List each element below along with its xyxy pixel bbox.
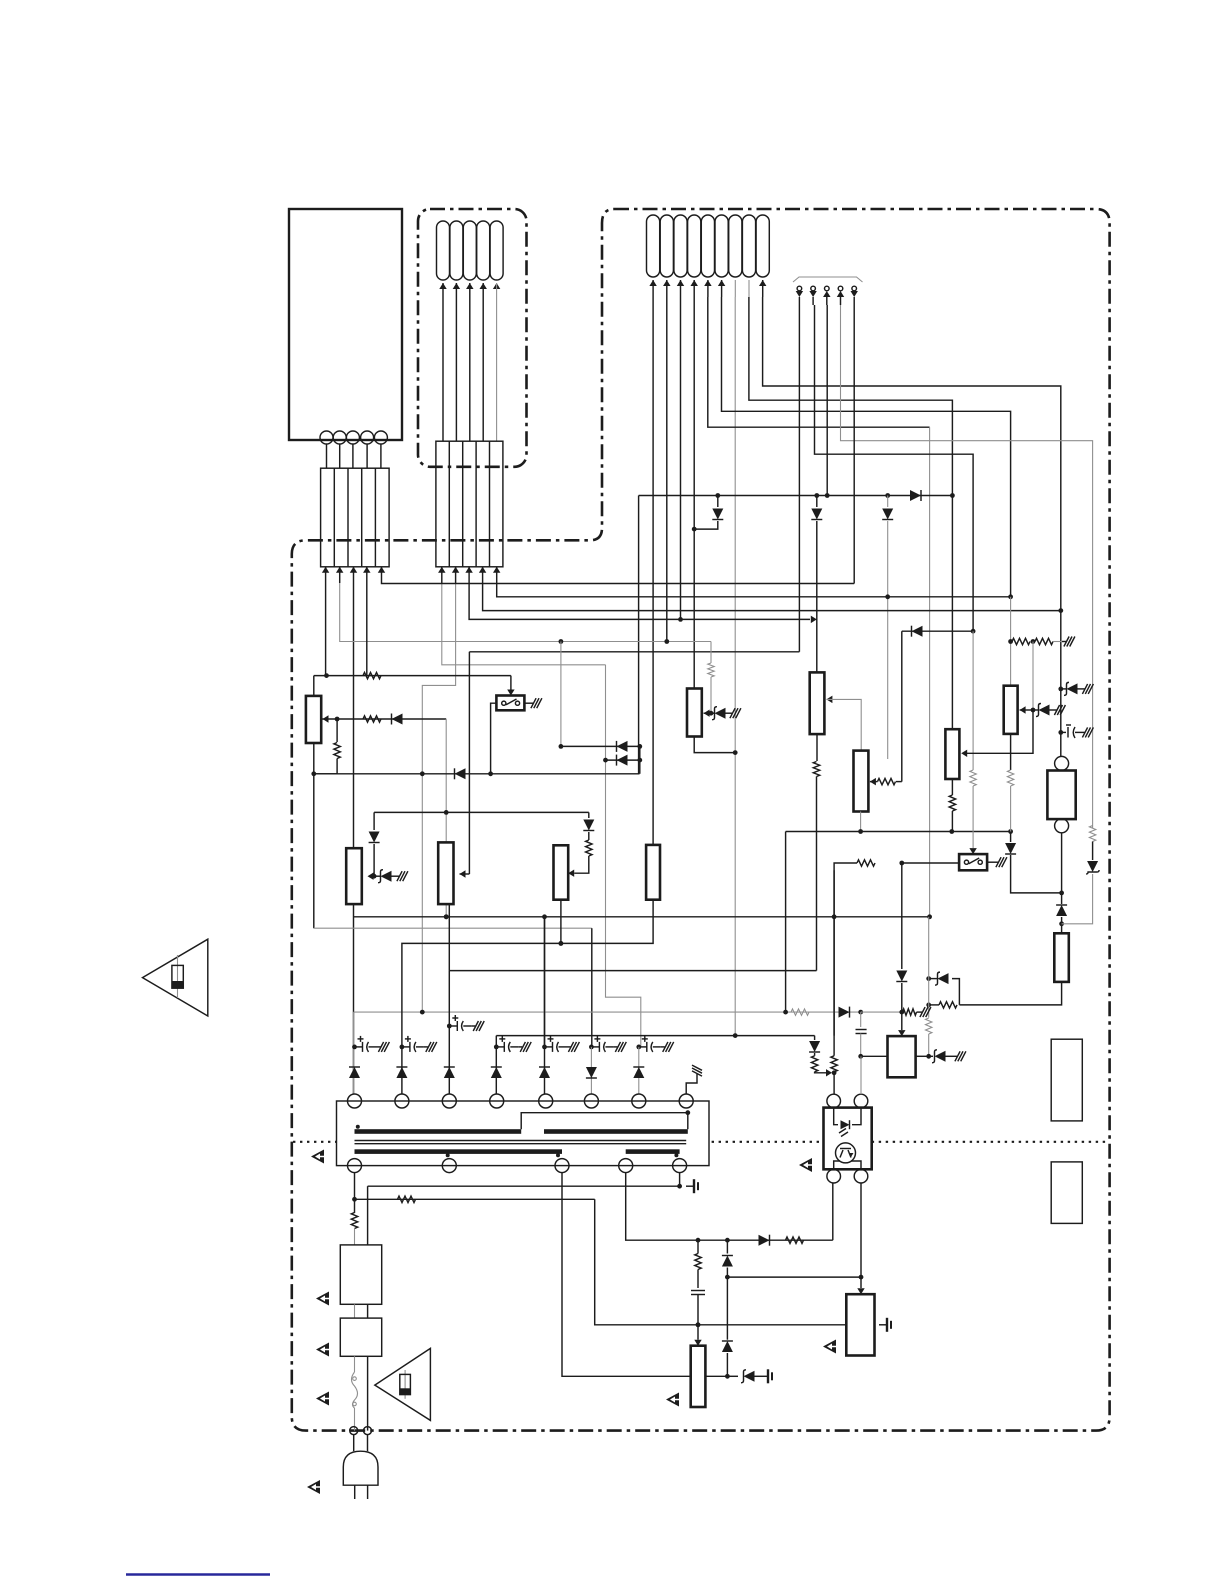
junction 753/jog [733, 750, 738, 755]
junction R11 top [335, 717, 340, 722]
junction rail619 pill3 [678, 617, 683, 622]
core line 2 [355, 1143, 687, 1145]
wire below boxes [354, 1356, 356, 1372]
junction x901/switch rail [899, 861, 904, 866]
header pin arrows [796, 291, 803, 297]
B4 bottom chain [816, 734, 818, 761]
junction loop/grey col [926, 1003, 931, 1008]
arrow into B4 from grey [826, 696, 832, 703]
junction x1061/923 [1059, 921, 1064, 926]
switch S2 rail left [902, 862, 959, 864]
junction c4 [495, 1046, 497, 1048]
resistor R18 on x1092 [1089, 826, 1095, 842]
wire x901 upper [901, 631, 903, 781]
dash-dot isolation border (main chassis outline) [292, 209, 1110, 1431]
wire pill2 down [666, 297, 668, 642]
zener ZD2 to ground [1061, 688, 1066, 690]
plug circle L [350, 1427, 358, 1435]
wires pills to CN2 block [439, 283, 446, 289]
grey rail 1012 [354, 1011, 861, 1013]
zener ZD6 [727, 1375, 738, 1377]
wire sec pin4 loop [626, 1173, 833, 1241]
resistor R27 [811, 1056, 817, 1072]
diode D22 [396, 1067, 407, 1078]
R-block R1 [554, 845, 569, 899]
cap C3 cluster [447, 1024, 452, 1029]
grey drop x562 [560, 642, 562, 747]
zener ZD8 B3 [711, 712, 714, 714]
pill lead-in arrows [649, 280, 656, 286]
thermistor top circle [1055, 756, 1069, 770]
chain x698 down [697, 1240, 699, 1253]
wire pill1 down to R-block B2 [652, 297, 654, 845]
wire x901 lower [901, 863, 903, 969]
R-block B6 [1004, 686, 1018, 734]
wire M1 bottom to rail970 [448, 904, 450, 971]
resistor R28 parallel [833, 870, 835, 1056]
opto pin2 circle [854, 1094, 868, 1108]
wire rail1199 drop [595, 1199, 847, 1325]
R-block B2 [646, 845, 660, 900]
wire x1060 chain [1060, 611, 1062, 757]
junction rail831 end [1008, 829, 1013, 834]
diode D7 left chain [373, 812, 375, 830]
junction x698 on 1324 [696, 1322, 701, 1327]
junction left chain [372, 874, 377, 879]
wire CN2 pin1 (grey) down then right [442, 583, 606, 665]
resistor R32 on loop [786, 1237, 804, 1243]
junction 1324/x698 [696, 1322, 701, 1327]
junction x1060/732 [1058, 730, 1063, 735]
wire CN1 pin4 down [366, 583, 368, 676]
junction rail596 x887 [885, 594, 890, 599]
junction x327 on 675 [324, 673, 329, 678]
junction 916/grey-drop [444, 914, 449, 919]
hazard marker 1 [311, 1150, 324, 1164]
label box 2 [1051, 1162, 1082, 1224]
junction grey col/1056 rail [926, 1054, 931, 1059]
wire CN2 pin2 (grey) down [422, 583, 455, 1012]
junction loop/x698 [696, 1238, 701, 1243]
diode D14 on drop [1010, 832, 1012, 843]
grey rail 1012 right [861, 1011, 902, 1013]
diode D30 on loop [759, 1235, 770, 1246]
wire CN1 pin2 (grey) rail [340, 583, 711, 642]
dash-dot connector sub-box around CN pills [418, 209, 527, 467]
wire S2 rail to x834 [834, 863, 857, 1036]
regulator REG1 [691, 1346, 706, 1407]
connector pill contacts CN3 (9) [647, 215, 660, 277]
junction 812/446 [445, 811, 447, 813]
diode D9 down [896, 971, 907, 982]
wire between boxes [354, 1304, 356, 1318]
chassis ground zd6 [760, 1375, 768, 1377]
drop to winding6 [591, 928, 593, 1047]
resistor R30 on rail1199 [398, 1196, 416, 1202]
diode D12 on rail1012 [839, 1007, 850, 1018]
resistor R22 [1035, 638, 1053, 644]
R-block L2 [346, 848, 362, 904]
junction 1012/x785 [783, 1010, 788, 1015]
diode D6 on 773 rail [455, 768, 466, 779]
wire header pin5 down [853, 305, 855, 584]
junction bus/header pin3 [825, 493, 830, 498]
opto transistor [836, 1143, 856, 1163]
wire drop to winding5 [544, 917, 546, 1095]
junction 773/switch drop [488, 771, 493, 776]
rail 1277 [727, 1276, 861, 1278]
hazard marker 5 [316, 1392, 329, 1406]
rail 1035 corner chain [814, 1036, 816, 1040]
label box 1 [1051, 1039, 1082, 1121]
cap C5 cluster [542, 1045, 547, 1050]
junction 916/x832 [832, 914, 837, 919]
posistor body [1047, 771, 1075, 820]
plug prong 2 [367, 1485, 369, 1499]
wire CN2 pin5 rail [497, 583, 1011, 597]
isolation dotted line right segment [872, 1141, 1109, 1143]
wire sec pin5 ground [679, 1173, 681, 1187]
wire header pin1 down [798, 305, 800, 652]
R-block B5 [854, 751, 869, 812]
wire CN1 pin5 rail [382, 582, 855, 585]
resistor R20 on grey col [928, 917, 930, 1018]
junction 831/952 [949, 829, 954, 834]
arrow into M1 [460, 870, 466, 877]
junction rail610 right [1058, 608, 1063, 613]
CN2 bottom pin arrows [438, 567, 445, 573]
resistor R19 on loop [939, 1002, 957, 1008]
opto LED [841, 1120, 850, 1129]
arrow into B3 [704, 709, 710, 716]
arrow into L2 [368, 872, 374, 879]
zener ZD7 to ground [929, 1055, 933, 1057]
wire drop to winding3 [448, 971, 450, 1095]
wire 719 rail [323, 718, 447, 720]
junction 1035/pill7 [733, 1033, 738, 1038]
junction x1060/688 [1058, 687, 1063, 692]
wire header pin4 (grey) [841, 305, 1093, 828]
opto pin1 circle [827, 1094, 841, 1108]
wire REG1 right [705, 1375, 727, 1377]
hazard marker 7 [666, 1393, 679, 1407]
winding bar top-left [355, 1129, 522, 1134]
isolation dotted line (primary/secondary) left segment [293, 1141, 337, 1143]
junction B3 node [709, 711, 714, 716]
cap C10 to ground [1061, 731, 1066, 733]
transformer T1 outline [337, 1101, 710, 1166]
rail 1199 [355, 1198, 595, 1200]
wire sec pin1 down [354, 1173, 356, 1213]
wire CN1 pin3 long rail [353, 583, 355, 1094]
wire into opto pin1 [833, 1073, 835, 1094]
rail 916 (secondary gnd ref) [354, 916, 930, 918]
winding bar bottom-right [626, 1149, 680, 1154]
cap C6 cluster [589, 1045, 594, 1050]
wire node710 to B7 [966, 710, 1033, 753]
resistor R12 on 719 rail [363, 716, 381, 722]
wire posistor down [1061, 833, 1063, 904]
wire pill4 down to R-block B3 [693, 297, 695, 689]
wire bus to B7 top [951, 496, 953, 730]
header pin circles (5) [797, 286, 802, 291]
R-block B4 [810, 672, 825, 734]
hazard marker 6 [307, 1480, 320, 1494]
switch S2 ground [987, 861, 994, 863]
resistor R10 on switch feed [363, 672, 381, 678]
resistor R24 below B6 [1007, 770, 1013, 786]
wire B8 bottom loop [959, 982, 1061, 1005]
B3 bottom jog to pill7 line [694, 737, 735, 753]
wire S1 left pin down [491, 703, 497, 774]
thermal fuse F1 [352, 1372, 358, 1408]
opto pin4 circle [854, 1169, 868, 1183]
warning triangle W2 (fuse) [375, 1348, 431, 1420]
rail 631 diode [902, 630, 973, 632]
wire w6 [590, 1047, 592, 1095]
polarity mark 3 [556, 1153, 560, 1157]
resistor R26 end [903, 1009, 917, 1015]
wire x727 lower [726, 1277, 728, 1340]
grey drop to winding 7 [606, 665, 641, 1047]
wire L1 bottom down [313, 743, 315, 928]
switch S2 [959, 854, 987, 870]
wire pill6 to B6 column [722, 297, 1011, 597]
wire rail1035 to winding4 [495, 1036, 497, 1095]
opto inner bottom [834, 1161, 840, 1169]
wire CN1 pin1 down [325, 583, 327, 676]
grey drop x446 [445, 719, 447, 917]
rail 651 (header pin1) [469, 651, 799, 653]
diode D13 [809, 1041, 820, 1052]
R-block M1 [438, 842, 453, 904]
resistor R14 hanging [710, 642, 712, 664]
junction 943/x560 [559, 941, 564, 946]
junction x860/1056 [858, 1054, 863, 1059]
line filter box LF1 [340, 1245, 381, 1304]
resistor R25 on rail1012 [791, 1009, 809, 1015]
wire w7 [638, 1047, 640, 1095]
junction x727/1277 [725, 1275, 730, 1280]
diode D23 [444, 1067, 455, 1078]
hazard marker 4 [316, 1343, 329, 1357]
wire opto pin4 down [860, 1183, 862, 1288]
junction bus/pill4 branch [715, 493, 720, 498]
transformer secondary pin circles [348, 1159, 362, 1173]
wire feedback column grey [929, 427, 931, 917]
REG2 chassis ground [879, 1324, 887, 1326]
junction bus/B4 branch [814, 493, 819, 498]
resistor R11 chain [336, 719, 338, 742]
wire sec pin3 down [562, 1173, 691, 1377]
junction opto feed [832, 1070, 837, 1075]
arrow into B6 [1020, 706, 1026, 713]
connector CN1 (5-way block) [321, 468, 390, 567]
resistor R13 right chain [586, 840, 592, 856]
junction sec5 [677, 1184, 682, 1189]
chain x727 down [726, 1240, 728, 1253]
diode D25 [539, 1067, 550, 1078]
wire zener node drop [1032, 642, 1034, 711]
wire CN2 pin3 rail [469, 583, 810, 619]
junction mid resistors [1031, 639, 1036, 644]
polarity mark 2 [446, 1153, 450, 1157]
junction zd4/grey col [926, 976, 931, 981]
hazard marker 8 [823, 1340, 836, 1354]
cap C4 cluster [494, 1045, 499, 1050]
arrow into L1 [323, 715, 329, 722]
IC block pin circles [320, 431, 333, 444]
resistor R17 on S2 rail [857, 860, 875, 866]
junction grey rail641 x562 [559, 639, 564, 644]
wire pill3 down [680, 297, 682, 619]
diode D10 on rail631 [912, 626, 923, 637]
junction x1010/641 [1008, 639, 1013, 644]
CN1 bottom pin arrows [322, 567, 329, 573]
junction bus right end [950, 493, 955, 498]
zener ZD3 on x1092 [1092, 842, 1094, 861]
diode D4 on bus right [910, 490, 921, 501]
wire 812 rail [374, 811, 589, 813]
wire opto pin2 grey [860, 1056, 862, 1094]
connector pill contacts CN2 (5) [437, 221, 450, 280]
cap C1 cluster [352, 1045, 357, 1050]
wire header pin2 staircase [815, 305, 974, 631]
polarity mark 4 [674, 1153, 678, 1157]
diode D27 [633, 1067, 644, 1078]
rail 1186 [368, 1185, 680, 1187]
resistor R31 vert [351, 1213, 357, 1229]
arrow into REG2 [857, 1288, 864, 1294]
wire 831 corner down to 1012 [785, 832, 787, 1013]
resistor R21 [1012, 638, 1030, 644]
rail 970 from M1 area [449, 970, 816, 972]
opto pin3 circle [827, 1169, 841, 1183]
cap C11 on x860 [860, 1012, 862, 1027]
switch S1 ground [524, 702, 529, 704]
wire mains L down [367, 1186, 369, 1245]
double diode branch upper [559, 744, 564, 749]
wire pill5 feedback column [708, 297, 930, 427]
wire pill9 to right column [763, 297, 1061, 611]
bracket over header pins [793, 277, 863, 282]
resistor R15 B5 side [878, 778, 896, 784]
warning triangle W1 (fuse) [143, 939, 208, 1016]
cap C2 cluster [400, 1045, 405, 1050]
footer rule (blue) [126, 1573, 270, 1576]
wire CN2 pin4 rail [483, 583, 1061, 611]
junction 1012/x422 [420, 1010, 425, 1015]
wire drop to winding1 [353, 1012, 355, 1094]
wire B5 bottom grey [860, 812, 862, 832]
aux winding link [521, 1113, 688, 1130]
rail 831 [786, 831, 1011, 833]
junction loop/x727 [725, 1238, 730, 1243]
wire loop up to opto pin3 [832, 1183, 834, 1240]
R-block B7 [945, 729, 959, 779]
zener ZD1 with ground [374, 875, 380, 877]
switch S1 (power sw) [496, 696, 524, 711]
junction 916/x544 [542, 914, 547, 919]
isolation dotted line middle segment [712, 1141, 824, 1143]
wire winding8 ground [686, 1078, 697, 1094]
junction 446/812 [444, 810, 449, 815]
mains plug P1 [343, 1451, 378, 1485]
rail 1056 left [861, 1055, 888, 1057]
wire switch feed [314, 675, 511, 677]
zener ZD5 to ground [1033, 709, 1038, 711]
grey rail 928 to winding6 [314, 927, 592, 929]
diode D24 [491, 1067, 502, 1078]
R-block B8 [1054, 933, 1069, 982]
wire header pin3 down to bus [826, 305, 828, 496]
R-block B3 [687, 689, 702, 737]
junction 1012/x901 [899, 1010, 904, 1015]
diode D8 right chain [588, 812, 590, 818]
chassis ground sec [686, 1185, 694, 1187]
resistor R16 on x973 [970, 770, 976, 786]
junction 1012/x860 [858, 1010, 863, 1015]
junction 446/916 [444, 914, 449, 919]
IC block (solid rectangle, top-left) [289, 209, 402, 440]
junction x727/1376 [725, 1374, 730, 1379]
wire into switch S1 [510, 676, 512, 690]
opto LED bracket [834, 1108, 838, 1125]
diode D1 on bus branch [717, 496, 719, 508]
junction x313 on 773 [311, 771, 316, 776]
plug circle N [364, 1427, 372, 1435]
junction 773/x422 [420, 771, 425, 776]
wires IC pins to connector CN1 [326, 444, 328, 468]
diode D2 below bus [816, 496, 818, 508]
grey link from x1092 [1062, 874, 1093, 924]
polarity mark 1 [356, 1125, 360, 1129]
junction 1199 [352, 1197, 357, 1202]
IC U2 (error amp) [888, 1036, 916, 1077]
wire M1 feed from rail651 [468, 652, 470, 874]
line filter box LF2 [340, 1318, 381, 1356]
junction node710 [1031, 708, 1036, 713]
winding bar bottom-left [355, 1149, 563, 1154]
junction rail596 grey col [1008, 594, 1013, 599]
wire pill8 to bus [749, 297, 953, 496]
zener ZD4 loop [952, 979, 959, 1005]
diode D31 [722, 1341, 733, 1352]
rail 1035 [496, 1035, 814, 1037]
hazard marker 2 [799, 1158, 812, 1172]
hazard marker 3 [316, 1292, 329, 1306]
diode D5 on 719 rail [392, 714, 403, 725]
opto coupler PC1 body [824, 1108, 872, 1170]
bus left end drop [638, 496, 640, 774]
wire R1 bottom [560, 900, 562, 944]
wire drop to winding2 [402, 900, 653, 1095]
winding bar top-right [544, 1129, 688, 1134]
wire pill7 (grey) straight down [734, 297, 736, 1036]
opto light arrows [839, 1129, 846, 1134]
rail 1056 right [916, 1055, 929, 1057]
diode D3 below bus (grey) [887, 496, 889, 508]
wire diode join drop [639, 746, 641, 773]
core line 1 [355, 1140, 687, 1142]
arrow into B5 [870, 778, 876, 785]
double diode branch lower [603, 758, 608, 763]
diode D21 [349, 1067, 360, 1078]
connector CN2 (5-way block) [436, 441, 503, 567]
wire plug leads [353, 1435, 355, 1452]
junction bus grey branch [885, 493, 890, 498]
wire B7 bottom [951, 779, 953, 795]
